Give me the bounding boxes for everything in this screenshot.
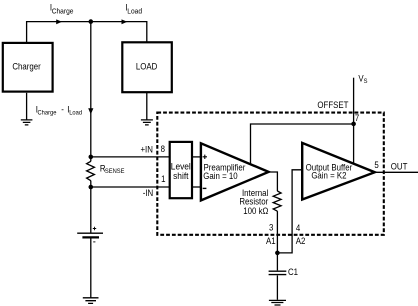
- svg-text:-IN: -IN: [143, 188, 153, 199]
- svg-text:8: 8: [161, 144, 166, 155]
- svg-text:Level: Level: [171, 161, 191, 171]
- svg-text:shift: shift: [173, 171, 189, 181]
- svg-text:Gain = 10: Gain = 10: [203, 170, 238, 181]
- svg-text:Charge: Charge: [38, 109, 57, 116]
- svg-text:Charge: Charge: [52, 7, 74, 16]
- svg-text:+IN: +IN: [140, 144, 152, 155]
- svg-text:OUT: OUT: [391, 161, 408, 172]
- svg-text:4: 4: [296, 222, 301, 233]
- svg-text:Load: Load: [69, 109, 82, 116]
- svg-text:A2: A2: [296, 235, 306, 246]
- svg-text:SENSE: SENSE: [105, 168, 125, 175]
- svg-text:S: S: [364, 78, 368, 85]
- svg-text:100 kΩ: 100 kΩ: [243, 205, 268, 216]
- svg-text:5: 5: [374, 159, 379, 170]
- svg-text:Load: Load: [127, 7, 142, 16]
- svg-text:3: 3: [269, 222, 274, 233]
- svg-text:A1: A1: [266, 235, 276, 246]
- svg-text:OFFSET: OFFSET: [317, 99, 348, 110]
- svg-text:LOAD: LOAD: [136, 61, 157, 72]
- svg-text:Gain = K2: Gain = K2: [311, 170, 346, 181]
- svg-text:-: -: [61, 104, 64, 115]
- svg-text:7: 7: [355, 112, 360, 123]
- svg-text:C1: C1: [288, 267, 298, 278]
- svg-text:1: 1: [161, 174, 166, 185]
- svg-text:Charger: Charger: [12, 61, 41, 72]
